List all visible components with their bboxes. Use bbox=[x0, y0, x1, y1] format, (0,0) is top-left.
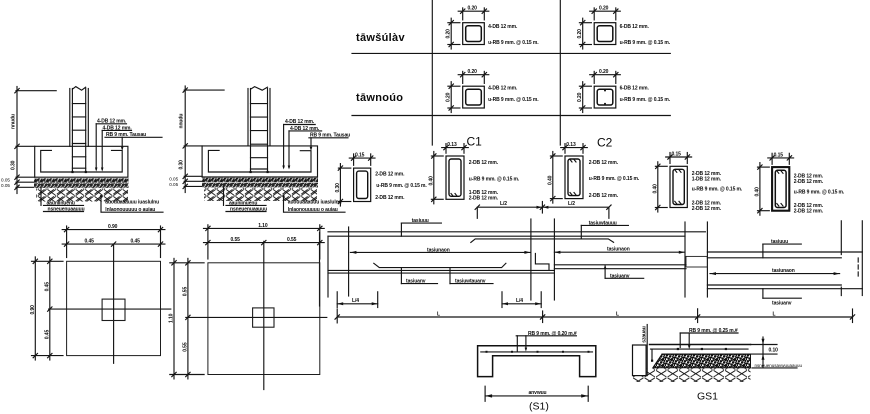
svg-text:0.20: 0.20 bbox=[577, 92, 583, 102]
special bottom reinf label span1 bbox=[450, 268, 493, 285]
svg-text:0.40: 0.40 bbox=[652, 184, 658, 194]
svg-text:0.40: 0.40 bbox=[547, 175, 553, 185]
lean/sand label (F2) bbox=[224, 187, 268, 213]
beam span1-2 bottom lines bbox=[328, 265, 686, 273]
svg-text:0.20: 0.20 bbox=[468, 69, 478, 75]
ground hatch (F2) bbox=[204, 188, 317, 201]
svg-text:u-RB 9 mm. @ 0.15 m.: u-RB 9 mm. @ 0.15 m. bbox=[620, 40, 671, 46]
special top bar over middle support bbox=[471, 239, 614, 243]
svg-text:0.05: 0.05 bbox=[1, 183, 10, 188]
rebar label 4-DB12 second (F1) bbox=[101, 125, 132, 171]
plan P2 dim 0.55/0.55 top bbox=[204, 237, 325, 245]
footing F2 rebar U-bar bbox=[208, 150, 311, 173]
GS1 edge wall bbox=[633, 325, 648, 376]
beam elevation left end support bbox=[320, 227, 349, 306]
continuous reinf arrow span2 bbox=[554, 246, 684, 253]
GS1 title bbox=[697, 391, 718, 403]
row label ground-floor column bbox=[356, 32, 405, 44]
beam span1-2 top rebar bbox=[328, 235, 685, 237]
svg-text:1.10: 1.10 bbox=[258, 223, 268, 229]
svg-text:C1: C1 bbox=[467, 135, 483, 149]
fill soil label (F2) bbox=[282, 195, 345, 213]
svg-text:0.40: 0.40 bbox=[428, 176, 434, 186]
stirrup label RB9 (F2) bbox=[309, 133, 350, 151]
svg-text:6-DB 12 mm.: 6-DB 12 mm. bbox=[620, 85, 650, 91]
column section cell R1C1 bbox=[446, 6, 540, 49]
svg-text:0.55: 0.55 bbox=[231, 237, 241, 243]
svg-text:0.55: 0.55 bbox=[182, 342, 188, 352]
svg-text:u-RB 9 mm. @ 0.15 m.: u-RB 9 mm. @ 0.15 m. bbox=[692, 187, 743, 193]
beam span3 bottom lines bbox=[707, 285, 862, 289]
continuous reinf arrow span1 bbox=[350, 247, 530, 254]
GS1 slab rebar line bbox=[651, 348, 749, 362]
svg-text:u-RB 9 mm. @ 0.15 m.: u-RB 9 mm. @ 0.15 m. bbox=[469, 176, 520, 182]
svg-text:0.20: 0.20 bbox=[577, 29, 583, 39]
plan P1 dim 0.45/0.45 top bbox=[62, 239, 165, 247]
rebar label 4-DB12 top (F2) bbox=[282, 119, 315, 169]
L/4 dimension left bbox=[337, 292, 378, 308]
svg-text:2-DB 12 mm.: 2-DB 12 mm. bbox=[375, 195, 405, 201]
column section cell R2C1 bbox=[446, 69, 540, 112]
svg-text:0.30: 0.30 bbox=[11, 160, 17, 170]
svg-text:L: L bbox=[773, 312, 776, 318]
svg-text:u-RB 9 mm. @ 0.15 m.: u-RB 9 mm. @ 0.15 m. bbox=[488, 40, 539, 46]
plan P2 dim 0.55/0.55 left bbox=[182, 258, 190, 379]
svg-text:2-DB 12 mm.: 2-DB 12 mm. bbox=[375, 172, 405, 178]
slab S1 title bbox=[529, 401, 549, 413]
svg-text:auouuaaauuu iuaslulnu: auouuaaauuu iuaslulnu bbox=[105, 199, 159, 205]
footing section F2 left dimension chain bbox=[169, 86, 224, 193]
svg-text:L/2: L/2 bbox=[500, 201, 507, 207]
svg-text:L/2: L/2 bbox=[568, 201, 575, 207]
svg-text:0.13: 0.13 bbox=[566, 142, 576, 148]
sand band (F1) bbox=[34, 183, 129, 188]
column schedule table grid bbox=[352, 0, 670, 145]
svg-text:2-DB 12 mm.: 2-DB 12 mm. bbox=[469, 195, 499, 201]
GS1 slab top line bbox=[650, 344, 751, 346]
beam span3 top line bbox=[707, 251, 862, 253]
column of footing F1 bbox=[70, 87, 89, 172]
svg-text:L/4: L/4 bbox=[516, 298, 523, 304]
svg-text:0.45: 0.45 bbox=[85, 239, 95, 245]
svg-text:6-DB 12 mm.: 6-DB 12 mm. bbox=[620, 24, 650, 30]
slab S1 span dimension bbox=[485, 386, 588, 401]
svg-text:u-RB 9 mm. @ 0.15 m.: u-RB 9 mm. @ 0.15 m. bbox=[488, 97, 539, 103]
column of footing F2 bbox=[248, 87, 270, 172]
GS1 slab bottom line bbox=[662, 353, 751, 355]
svg-text:nnudu: nnudu bbox=[11, 114, 17, 129]
beam section B3 (0.15x0.40) bbox=[652, 152, 743, 213]
svg-text:0.15: 0.15 bbox=[672, 152, 682, 158]
plan P1 dim 0.90 left bbox=[30, 257, 63, 360]
svg-text:0.55: 0.55 bbox=[182, 287, 188, 297]
slab S1 rebar label bbox=[516, 331, 577, 352]
svg-text:0.15: 0.15 bbox=[774, 152, 784, 158]
svg-text:0.40: 0.40 bbox=[754, 187, 760, 197]
svg-text:0.20: 0.20 bbox=[599, 6, 609, 12]
svg-text:0.20: 0.20 bbox=[599, 69, 609, 75]
beam elevation right support column bbox=[841, 221, 862, 296]
fill soil label (F1) bbox=[100, 195, 163, 213]
svg-text:4-DB 12 mm.: 4-DB 12 mm. bbox=[488, 24, 518, 30]
rebar label 4-DB12 second (F2) bbox=[288, 126, 322, 170]
svg-text:0.45: 0.45 bbox=[131, 239, 141, 245]
footing F1 rebar U-bar bbox=[41, 150, 123, 173]
slab S1 outline bbox=[478, 346, 596, 377]
svg-text:GS1: GS1 bbox=[697, 391, 718, 403]
svg-text:tasiunaon: tasiunaon bbox=[772, 268, 795, 274]
special bottom bar span1 bbox=[374, 263, 506, 267]
svg-text:2-DB 12 mm.: 2-DB 12 mm. bbox=[692, 206, 722, 212]
svg-text:nnudu: nnudu bbox=[179, 114, 185, 129]
svg-text:2-DB 12 mm.: 2-DB 12 mm. bbox=[469, 160, 499, 166]
L/4 dimension right bbox=[502, 292, 541, 308]
svg-text:u-RB 9 mm. @ 0.15 m.: u-RB 9 mm. @ 0.15 m. bbox=[620, 97, 671, 103]
column section cell R1C2 bbox=[577, 6, 671, 49]
sand band (F2) bbox=[202, 183, 318, 188]
footing plan P1 centerlines bbox=[49, 245, 171, 363]
L/2 lap dimension bbox=[475, 201, 611, 218]
svg-text:L: L bbox=[616, 312, 619, 318]
bottom reinf label span3 bbox=[763, 289, 801, 307]
footing section F1 left dimension chain bbox=[1, 87, 56, 194]
svg-text:0.10: 0.10 bbox=[769, 347, 779, 353]
svg-text:tasiunaon: tasiunaon bbox=[427, 247, 450, 253]
svg-text:C2: C2 bbox=[597, 136, 613, 150]
special top reinf label bbox=[581, 220, 628, 239]
svg-text:0.90: 0.90 bbox=[30, 305, 36, 315]
svg-text:0.05: 0.05 bbox=[169, 182, 178, 187]
GS1 ground hatch bbox=[633, 368, 751, 382]
footing F2 outline bbox=[202, 146, 317, 177]
svg-text:u-RB 9 mm. @ 0.15 m.: u-RB 9 mm. @ 0.15 m. bbox=[794, 189, 845, 195]
svg-text:1.10: 1.10 bbox=[169, 313, 175, 323]
beam span3 top rebar bbox=[707, 257, 841, 259]
svg-text:u-RB 9 mm. @ 0.15 m.: u-RB 9 mm. @ 0.15 m. bbox=[376, 183, 427, 189]
GS1 thickness dim 0.10 bbox=[751, 337, 779, 368]
top reinf label span3 bbox=[763, 239, 801, 258]
beam section C1 (0.13x0.40) bbox=[428, 135, 520, 204]
bottom reinf label span1 bbox=[401, 268, 437, 285]
svg-text:1-DB 12 mm.: 1-DB 12 mm. bbox=[692, 176, 722, 182]
bottom reinf label span2 bbox=[604, 265, 644, 280]
svg-text:2-DB 12 mm.: 2-DB 12 mm. bbox=[589, 160, 619, 166]
svg-text:tasiuanv: tasiuanv bbox=[772, 300, 792, 306]
beam section B4 (0.15x0.40 heavy) bbox=[754, 152, 845, 215]
beam span1-2 top line bbox=[328, 231, 705, 233]
slab S1 rebar line bbox=[481, 351, 593, 353]
svg-text:tasiunaon: tasiunaon bbox=[607, 246, 630, 252]
row label stub column bbox=[356, 92, 403, 104]
column section cell R2C2 bbox=[577, 69, 671, 112]
GS1 rebar label bbox=[680, 328, 738, 349]
svg-text:tāwnoúo: tāwnoúo bbox=[356, 92, 403, 104]
svg-text:2-DB 12 mm.: 2-DB 12 mm. bbox=[794, 179, 824, 185]
svg-text:L/4: L/4 bbox=[352, 298, 359, 304]
overall span L dimension bbox=[335, 309, 855, 323]
svg-text:0.20: 0.20 bbox=[446, 29, 452, 39]
lean concrete band (F2) bbox=[202, 178, 318, 182]
GS1 sand label bbox=[752, 363, 803, 368]
svg-text:anvwuu: anvwuu bbox=[529, 390, 547, 396]
beam elevation middle support column bbox=[531, 219, 555, 300]
svg-text:0.90: 0.90 bbox=[108, 224, 118, 230]
plan P1 dim 0.90 top bbox=[62, 224, 165, 257]
svg-text:0.15: 0.15 bbox=[355, 153, 365, 159]
svg-text:0.30: 0.30 bbox=[335, 183, 341, 193]
beam elevation junction support column bbox=[685, 222, 707, 297]
beam section C2 (0.13x0.40) bbox=[547, 136, 640, 204]
rebar label 4-DB12 top (F1) bbox=[95, 119, 127, 172]
svg-text:nsneuenusavwuuaauuu: nsneuenusavwuuaauuu bbox=[755, 363, 803, 368]
plan P2 dim 1.10 left bbox=[169, 258, 205, 379]
svg-text:0.13: 0.13 bbox=[447, 142, 457, 148]
svg-text:0.30: 0.30 bbox=[179, 160, 185, 170]
svg-text:0.55: 0.55 bbox=[287, 237, 297, 243]
footing F1 outline bbox=[35, 146, 128, 177]
svg-text:0.45: 0.45 bbox=[44, 282, 50, 292]
footing plan P2 column bbox=[253, 308, 274, 327]
svg-text:0.45: 0.45 bbox=[44, 330, 50, 340]
beam elevation right edge line bbox=[0, 0, 1, 1]
lean concrete band (F1) bbox=[34, 178, 129, 182]
ground hatch (F1) bbox=[36, 188, 128, 201]
footing plan P1 outline bbox=[67, 261, 161, 355]
svg-text:0.20: 0.20 bbox=[446, 92, 452, 102]
continuous reinf arrow span3 bbox=[710, 268, 840, 275]
plan P1 dim 0.45/0.45 left bbox=[44, 257, 52, 360]
svg-text:szauau: szauau bbox=[641, 326, 647, 342]
plan P2 dim 1.10 top bbox=[204, 223, 325, 259]
svg-text:2-DB 12 mm.: 2-DB 12 mm. bbox=[794, 209, 824, 215]
svg-text:4-DB 12 mm.: 4-DB 12 mm. bbox=[488, 85, 518, 91]
stirrup label RB9 (F1) bbox=[105, 132, 162, 150]
lean/sand label (F1) bbox=[41, 187, 85, 212]
svg-text:u-RB 9 mm. @ 0.15 m.: u-RB 9 mm. @ 0.15 m. bbox=[589, 176, 640, 182]
beam section B0 (0.15x0.30) bbox=[335, 153, 428, 206]
svg-text:2-DB 12 mm.: 2-DB 12 mm. bbox=[589, 193, 619, 199]
GS1 sand layer bbox=[653, 354, 751, 368]
footing plan P2 centerlines bbox=[186, 241, 327, 389]
footing plan P1 column bbox=[102, 299, 125, 320]
svg-text:(S1): (S1) bbox=[529, 401, 549, 413]
svg-text:0.20: 0.20 bbox=[468, 6, 478, 12]
svg-text:L: L bbox=[437, 312, 440, 318]
top reinf label span1 bbox=[401, 218, 441, 236]
svg-text:tāwšúlàv: tāwšúlàv bbox=[356, 32, 405, 44]
svg-text:auouuaaauuu iuaslulnu: auouuaaauuu iuaslulnu bbox=[288, 199, 342, 205]
footing plan P2 outline bbox=[208, 263, 320, 375]
